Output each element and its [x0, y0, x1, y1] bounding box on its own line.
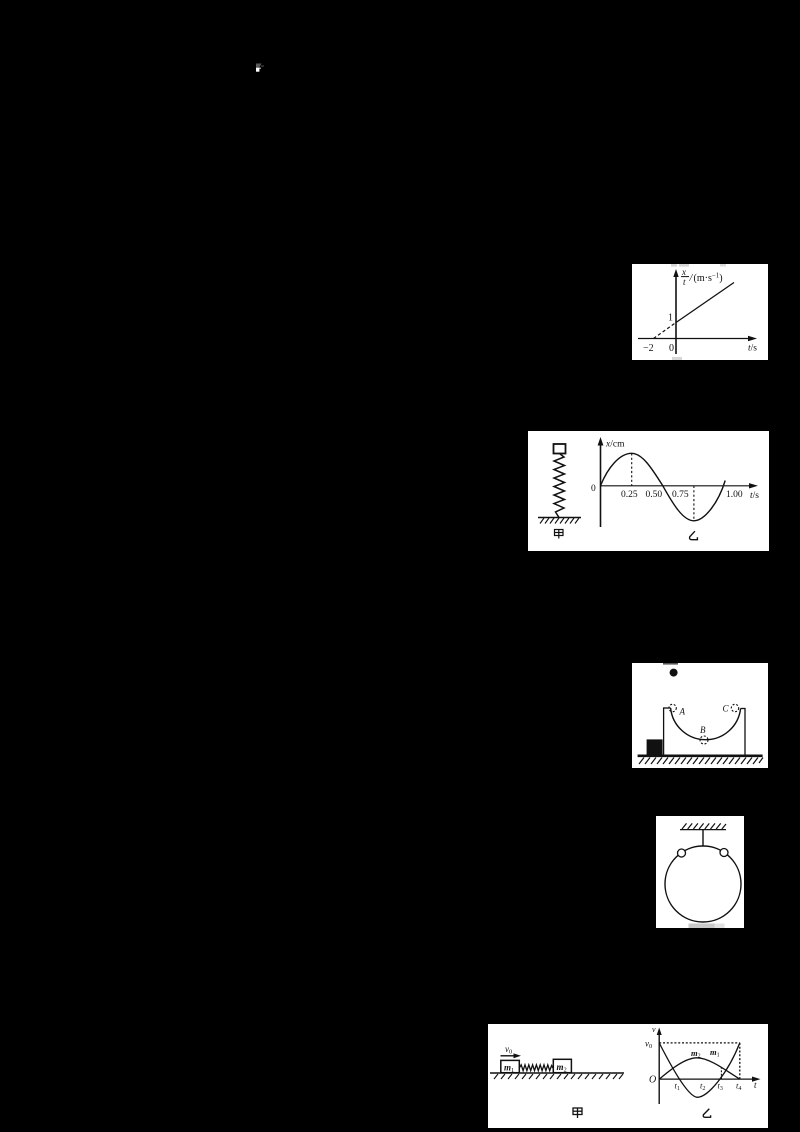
graph v-axis	[652, 1025, 662, 1104]
spring (vertical zigzag)	[554, 454, 565, 518]
ground line	[490, 1072, 624, 1074]
graph t-axis	[659, 1077, 760, 1082]
svg-text:m2: m2	[557, 1062, 567, 1074]
velocity arrow	[501, 1053, 522, 1058]
dashed ball at B	[700, 736, 708, 744]
x-axis	[638, 336, 757, 341]
figure 5: blocks with spring (jia) and v-t graph (yi)	[488, 1024, 768, 1128]
svg-text:t1: t1	[675, 1081, 680, 1093]
dashed ball at C	[731, 704, 738, 711]
svg-text:t4: t4	[736, 1081, 741, 1093]
dashed vertical at t3	[720, 1067, 722, 1079]
figure 3: ball and bowl on ground	[632, 663, 768, 768]
spring between blocks	[519, 1065, 553, 1071]
ceiling line	[680, 829, 726, 831]
graph y-axis	[598, 437, 604, 527]
svg-text:O: O	[649, 1075, 656, 1086]
grey edge artifacts	[671, 264, 726, 360]
ground hatching	[494, 1074, 623, 1079]
ground hatching	[540, 518, 579, 524]
grey bottom smudge	[689, 924, 715, 929]
svg-text:t2: t2	[700, 1081, 705, 1093]
svg-text:v: v	[652, 1025, 656, 1034]
label jia (甲)	[555, 530, 564, 539]
ground line	[638, 754, 763, 757]
ring (large circle)	[665, 846, 741, 922]
svg-text:C: C	[723, 704, 730, 714]
dashed ball at A	[669, 704, 676, 711]
svg-text:t/s: t/s	[748, 344, 757, 354]
figure 1: x/t vs t graph	[632, 264, 768, 360]
svg-text:B: B	[700, 725, 706, 735]
dashed vertical at peak 0.25	[631, 453, 633, 486]
solid line segment t>0	[676, 283, 734, 323]
right bead	[720, 849, 728, 857]
block m1	[501, 1060, 520, 1072]
dotted horizontal at v0	[659, 1042, 740, 1044]
block m2	[553, 1059, 571, 1072]
svg-text:t/s: t/s	[750, 491, 759, 501]
svg-text:t: t	[754, 1080, 757, 1090]
tiny glyph artifact near top of page	[255, 62, 267, 73]
axis label x/t /(m·s-1)	[681, 267, 723, 287]
ceiling hatching	[682, 823, 726, 829]
m1 velocity curve	[659, 1043, 740, 1097]
dashed vertical at trough 0.75	[693, 486, 695, 521]
black block on ground	[647, 739, 663, 755]
string	[702, 830, 704, 846]
falling ball	[670, 669, 678, 677]
dashed line segment t<0	[654, 323, 677, 339]
right wall of stand	[741, 709, 746, 756]
svg-text:1.00: 1.00	[726, 490, 743, 500]
label yi (乙)	[703, 1109, 710, 1118]
svg-text:A: A	[679, 707, 686, 717]
grey top notch	[663, 663, 678, 665]
svg-text:m2: m2	[691, 1048, 701, 1060]
svg-text:(m·s−1): (m·s−1)	[694, 272, 723, 285]
ground hatching	[639, 758, 763, 765]
svg-text:0.75: 0.75	[672, 490, 689, 500]
left wall of stand	[663, 708, 671, 755]
svg-text:t3: t3	[718, 1081, 723, 1093]
svg-text:0.50: 0.50	[646, 490, 663, 500]
svg-text:x/cm: x/cm	[605, 440, 625, 450]
label jia (甲)	[573, 1108, 582, 1118]
block on spring	[554, 444, 566, 454]
svg-text:t: t	[683, 277, 686, 287]
svg-text:v0: v0	[645, 1039, 652, 1051]
left bead	[678, 849, 686, 857]
dotted vertical at t4	[739, 1043, 741, 1079]
svg-text:−2: −2	[643, 343, 654, 354]
svg-text:0: 0	[591, 484, 596, 494]
y-axis	[673, 269, 678, 354]
svg-text:v0: v0	[505, 1044, 512, 1056]
m2 velocity curve	[659, 1058, 740, 1079]
figure 2: spring-block (jia) and x-t sine graph (yi)	[528, 431, 769, 551]
svg-text:m1: m1	[710, 1047, 720, 1059]
figure 4: ring hanging from ceiling with two beads	[656, 816, 744, 928]
svg-text:0.25: 0.25	[621, 490, 638, 500]
sine curve	[601, 453, 726, 521]
graph x-axis	[601, 483, 759, 488]
svg-text:1: 1	[668, 313, 673, 324]
semicircular bowl track	[671, 708, 741, 740]
svg-text:x: x	[681, 267, 686, 277]
label yi (乙)	[690, 531, 698, 540]
ground under spring	[538, 517, 581, 519]
svg-text:0: 0	[669, 343, 674, 354]
